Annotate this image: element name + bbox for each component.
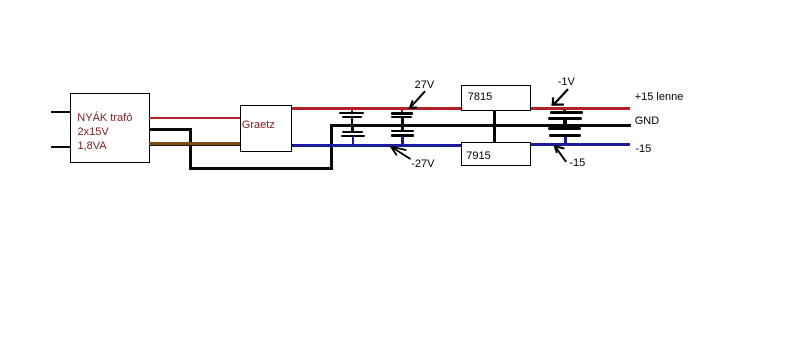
label: -15 (output cap annotation) [569,158,585,169]
arrow: 27V pointer [410,92,425,108]
wire: +V red rail (Graetz to 7815) [292,107,461,110]
wire: -15 blue rail (7915 to output) [531,143,630,146]
regulator U3 box "7915" [461,142,531,166]
wire: center tap black horizontal (trafo to bend) [149,128,192,131]
capacitor C1 (+rail to GND, left pair upper) [339,110,365,125]
wire: center tap bottom run [189,167,333,170]
capacitor C5 (+15 to GND, output upper) [548,109,584,130]
wire: primary input stub top [51,111,71,113]
arrow: -1V pointer [553,90,568,105]
bridge rectifier U1 box "Graetz" [240,105,293,152]
net label: -15 [635,144,651,155]
wire: center tap vertical drop [189,128,192,170]
capacitor C2 (GND to -rail, left pair lower) [339,127,365,144]
arrow: output -15 pointer [555,146,566,161]
capacitor C3 (+rail to GND, right pair upper) [390,110,415,125]
wire: primary input stub bottom [51,146,71,148]
wire: -V blue rail (Graetz to 7915) [292,144,461,147]
label: -1V [558,77,575,88]
capacitor C6 (GND to -15, output lower) [548,127,584,143]
capacitor C4 (GND to -rail, right pair lower) [390,127,415,144]
wire: +15 red rail (7815 to output) [531,107,630,110]
wire: regulator ground pins vertical [493,111,496,144]
net label: GND [635,116,659,127]
transformer TR1 box "NYÁK trafó 2x15V 1,8VA" [70,93,149,163]
label: -27V [411,159,434,170]
wire: GND rail [330,124,631,127]
regulator U2 box "7815" [461,85,531,111]
wire: secondary red (trafo to Graetz) [149,117,240,120]
wire: center tap rise to GND rail [330,124,333,171]
wire: secondary brown (trafo to Graetz) [149,142,240,146]
arrow: -27V pointer [391,147,410,159]
net label: +15 lenne [635,92,684,103]
label: 27V [415,80,435,91]
